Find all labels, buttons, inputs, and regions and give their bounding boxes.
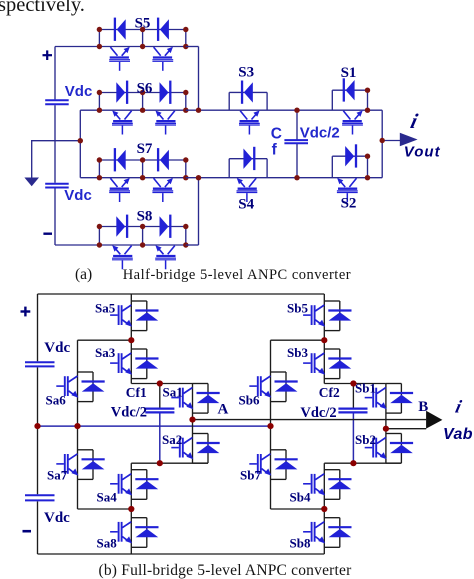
- wire Sb7 column: [271, 426, 325, 509]
- transistor S6-Q1: [112, 111, 133, 135]
- svg-text:Cf2: Cf2: [319, 385, 340, 400]
- wire top rail (a): [186, 109, 382, 111]
- junction dots of S5: [97, 27, 189, 49]
- wire bottom rail (a): [186, 177, 382, 179]
- wire Sb2 column: [385, 429, 387, 464]
- svg-text:Vdc/2: Vdc/2: [300, 405, 336, 421]
- wire Sa1 top connection: [160, 383, 193, 385]
- svg-text:Half-bridge 5-level ANPC conve: Half-bridge 5-level ANPC converter: [123, 267, 351, 283]
- junction Cf1/Sa2/Sa4 node: [157, 460, 163, 466]
- diode S7-D1: [115, 148, 126, 171]
- wire Sa4 column: [130, 463, 132, 509]
- svg-text:(a): (a): [75, 266, 92, 283]
- junction neutral at Sb6/Sb7: [267, 423, 273, 429]
- diode loop wire of Sa5: [131, 301, 147, 331]
- wire S8 right corner: [186, 178, 199, 245]
- svg-text:Sa5: Sa5: [95, 301, 116, 316]
- svg-text:Sb2: Sb2: [355, 432, 376, 447]
- diode Sa3-D: [135, 359, 158, 369]
- junction dots of S7: [97, 157, 189, 180]
- diode S7-D2: [158, 148, 169, 171]
- plus terminal of circuit (a): [43, 50, 53, 60]
- diode loop wire of Sa8: [131, 518, 147, 548]
- node B junction: [383, 426, 389, 432]
- svg-text:Vdc: Vdc: [44, 510, 70, 526]
- diode loop wire of Sb6: [271, 372, 287, 402]
- diode loop wire of Sa4: [131, 470, 147, 500]
- svg-text:Sb5: Sb5: [287, 301, 308, 316]
- wire Sb3 to node jog: [324, 383, 353, 385]
- junction Cf2/Sb2/Sb4 node: [350, 460, 356, 466]
- junction neutral at bus: [34, 423, 40, 429]
- diode Sb8-D: [328, 527, 351, 537]
- wire neutral tap: [31, 140, 80, 142]
- diode loop wire of Sb8: [324, 518, 340, 548]
- wire ladder of switch cell S6: [99, 93, 185, 111]
- diode S2-D: [345, 144, 356, 167]
- wire Sb1 column: [385, 384, 387, 429]
- diode loop wire of Sa1: [193, 384, 209, 414]
- transistor S8-Q1: [112, 245, 133, 269]
- wire Sa1 column: [192, 384, 194, 420]
- wire DC bus upper segment: [54, 47, 56, 100]
- capacitor Vdc (b upper): [25, 362, 55, 366]
- wire ladder of switch cell S8: [99, 227, 185, 246]
- svg-text:S1: S1: [341, 65, 357, 81]
- svg-text:Sa6: Sa6: [46, 392, 67, 407]
- svg-text:S4: S4: [238, 196, 254, 212]
- svg-text:Sa3: Sa3: [95, 345, 116, 360]
- diode S6-D2: [160, 81, 171, 104]
- transistor Sa8-Q: [110, 522, 132, 544]
- transistor Sb8-Q: [303, 522, 325, 544]
- svg-text:spectively.: spectively.: [0, 0, 85, 16]
- svg-text:S3: S3: [238, 65, 254, 81]
- svg-text:Vout: Vout: [404, 143, 441, 160]
- svg-text:S8: S8: [137, 208, 153, 224]
- junction output node: [380, 138, 385, 143]
- diode S5-D2: [158, 18, 169, 41]
- wire top rail (b): [38, 293, 325, 295]
- diode loop wire of Sa7: [78, 450, 94, 480]
- junction top rail at S5 vertical: [196, 108, 201, 113]
- ground symbol: [24, 178, 39, 187]
- minus terminal of circuit (b): [23, 530, 32, 533]
- wire Sa3 to node jog: [131, 383, 160, 385]
- transistor Sb7-Q: [249, 454, 271, 476]
- diode S8-D1: [116, 215, 127, 238]
- junction Sa4/Sa8 node: [128, 506, 134, 512]
- diode loop wire of Sb2: [386, 434, 402, 464]
- wire output stub: [382, 140, 400, 142]
- svg-text:Sa8: Sa8: [97, 536, 118, 551]
- diode Sa6-D: [82, 382, 105, 392]
- junction neutral tap node: [78, 138, 83, 143]
- diode loop wire of S4: [229, 159, 267, 178]
- wire DC bus (b) lower segment: [37, 501, 39, 554]
- transistor Sb6-Q: [249, 376, 271, 398]
- wire Sb4 column: [323, 463, 325, 509]
- diode Sa4-D: [135, 479, 158, 489]
- wire Cf2 upper stem: [352, 384, 354, 409]
- diode Sa5-D: [135, 311, 158, 321]
- transistor Sa5-Q: [110, 305, 132, 327]
- wire Cf1 lower stem: [159, 413, 161, 463]
- transistor S7-Q1: [109, 178, 130, 202]
- wire - rail to S8: [55, 244, 99, 246]
- transistor S4-Q: [237, 178, 258, 202]
- transistor S1-Q: [342, 111, 363, 135]
- junction neutral at Sa6/Sa7: [74, 423, 80, 429]
- svg-text:Sb1: Sb1: [355, 381, 376, 396]
- plus terminal of circuit (b): [21, 307, 31, 317]
- wire output vertical: [381, 110, 383, 178]
- wire S6-S7 left vertical: [79, 110, 81, 178]
- svg-text:Vdc: Vdc: [44, 340, 70, 356]
- diode S8-D2: [160, 215, 171, 238]
- wire Sb3 column: [323, 340, 325, 383]
- svg-text:Vdc/2: Vdc/2: [111, 405, 147, 421]
- wire node B line: [386, 428, 426, 430]
- transistor Sa4-Q: [110, 474, 132, 496]
- wire Sa8 column: [130, 509, 132, 554]
- label i (a): [408, 109, 420, 133]
- wire Sb1 top connection: [353, 383, 386, 385]
- svg-text:(b) Full-bridge 5-level ANPC c: (b) Full-bridge 5-level ANPC converter: [99, 562, 353, 579]
- svg-text:S7: S7: [137, 141, 153, 157]
- svg-text:A: A: [218, 402, 229, 418]
- svg-text:i: i: [408, 109, 420, 133]
- diode Sb4-D: [328, 479, 351, 489]
- capacitor Cf2: [338, 409, 367, 413]
- wire Cf lower stem: [296, 144, 298, 178]
- transistor Sb4-Q: [303, 474, 325, 496]
- transistor S5-Q1: [109, 47, 130, 71]
- diode loop wire of Sb7: [271, 450, 287, 480]
- diode loop wire of Sa2: [193, 434, 209, 464]
- transistor Sa7-Q: [56, 454, 78, 476]
- wire Sa3 column: [130, 340, 132, 383]
- transistor S7-Q2: [152, 178, 173, 202]
- wire S5 right corner: [186, 47, 199, 111]
- diode Sa2-D: [197, 443, 220, 453]
- wire Sa2 bottom connection: [160, 462, 208, 464]
- capacitor Cf1: [145, 409, 174, 413]
- transistor Sa6-Q: [56, 376, 78, 398]
- svg-text:Sb4: Sb4: [290, 490, 311, 505]
- wire Sb4 top jog: [324, 462, 353, 464]
- wire ladder of switch cell S5: [99, 30, 185, 47]
- transistor Sa2-Q: [171, 438, 193, 460]
- svg-text:Sb8: Sb8: [290, 536, 311, 551]
- capacitor Vdc (upper): [45, 100, 68, 104]
- junction Sb5/Sb3/Sb6 node: [321, 337, 327, 343]
- transistor S5-Q2: [152, 47, 173, 71]
- svg-text:C: C: [271, 125, 282, 142]
- diode loop wire of Sa6: [78, 372, 94, 402]
- wire DC bus (b) upper segment: [37, 294, 39, 361]
- svg-text:Sa4: Sa4: [97, 490, 118, 505]
- junction Sa3/Cf1/Sa1 node: [157, 380, 163, 386]
- wire DC bus lower segment: [54, 188, 56, 245]
- wire Sb8 column: [323, 509, 325, 554]
- diode Sb2-D: [390, 443, 413, 453]
- diode Sb5-D: [328, 311, 351, 321]
- diode loop wire of S2: [332, 156, 367, 178]
- capacitor Vdc (b lower): [25, 495, 55, 500]
- svg-text:S6: S6: [137, 81, 153, 97]
- svg-text:Sa7: Sa7: [47, 467, 68, 482]
- diode S4-D: [243, 147, 254, 170]
- junction bottom rail at S8 vertical: [196, 175, 201, 180]
- wire Sa5 column: [130, 294, 132, 340]
- junction dots of S1: [365, 88, 370, 113]
- capacitor Vdc (lower): [45, 184, 68, 188]
- junction Cf bottom: [294, 175, 299, 180]
- wire DC bus (b) middle segment: [37, 367, 39, 494]
- wire Cf1 upper stem: [159, 384, 161, 409]
- wire DC bus middle segment: [54, 105, 56, 183]
- wire stub to S6 left node: [80, 109, 99, 111]
- junction dots of S6: [97, 90, 189, 113]
- svg-text:Vdc: Vdc: [64, 187, 92, 204]
- svg-text:Vdc: Vdc: [65, 83, 93, 100]
- diode Sb3-D: [328, 359, 351, 369]
- svg-text:Sa2: Sa2: [162, 432, 182, 447]
- diode Sa1-D: [197, 393, 220, 403]
- svg-text:Sb7: Sb7: [240, 467, 261, 482]
- diode loop wire of Sb3: [324, 349, 340, 379]
- svg-text:Vab: Vab: [443, 426, 473, 443]
- transistor S3-Q: [239, 111, 260, 135]
- wire Cf upper stem: [296, 110, 298, 139]
- diode Sb7-D: [275, 459, 298, 469]
- wire Sa2 column: [192, 420, 194, 464]
- minus terminal of circuit (a): [43, 232, 52, 234]
- junction dots of S2: [365, 154, 370, 181]
- diode loop wire of S3: [229, 92, 267, 110]
- diode Sa7-D: [82, 459, 105, 469]
- svg-text:B: B: [418, 399, 428, 415]
- transistor S6-Q2: [155, 111, 176, 135]
- diode Sa8-D: [135, 527, 158, 537]
- transistor Sa1-Q: [171, 388, 193, 410]
- wire stub to S7 left node: [80, 177, 99, 179]
- wire ladder of switch cell S7: [99, 160, 185, 178]
- svg-text:f: f: [272, 142, 278, 159]
- svg-text:Cf1: Cf1: [126, 385, 147, 400]
- svg-text:Vdc/2: Vdc/2: [300, 125, 340, 142]
- output arrow (b): [426, 411, 442, 429]
- diode S6-D1: [116, 81, 127, 104]
- wire Cf2 lower stem: [352, 413, 354, 463]
- junction Sb3/Cf2/Sb1 node: [350, 380, 356, 386]
- svg-text:i: i: [454, 397, 464, 417]
- wire ground stem: [31, 141, 33, 178]
- label i (b): [454, 397, 464, 417]
- wire node A line: [193, 419, 427, 421]
- node A junction: [189, 417, 195, 423]
- diode loop wire of Sb4: [324, 470, 340, 500]
- svg-text:Sb3: Sb3: [287, 345, 308, 360]
- output arrow (a): [400, 133, 418, 146]
- diode loop wire of S1: [332, 90, 367, 110]
- transistor Sb5-Q: [303, 305, 325, 327]
- diode loop wire of Sa3: [131, 349, 147, 379]
- junction dots of S8: [97, 224, 189, 248]
- transistor Sb1-Q: [365, 388, 387, 410]
- diode loop wire of Sb5: [324, 301, 340, 331]
- diode Sb1-D: [390, 393, 413, 403]
- svg-text:S5: S5: [135, 15, 151, 31]
- svg-text:Sa1: Sa1: [163, 384, 183, 399]
- wire bottom rail (b): [38, 553, 325, 555]
- wire + rail to S5: [55, 46, 99, 48]
- junction Cf top: [294, 108, 299, 113]
- svg-text:S2: S2: [341, 195, 357, 211]
- capacitor Cf: [284, 140, 308, 143]
- transistor S8-Q2: [155, 245, 176, 269]
- wire Sa6 top connection: [78, 340, 132, 426]
- junction Sa5/Sa3/Sa6 node: [128, 337, 134, 343]
- diode S5-D1: [115, 18, 126, 41]
- wire Sb5 column: [323, 294, 325, 340]
- diode loop wire of Sb1: [386, 384, 402, 414]
- transistor Sb3-Q: [303, 353, 325, 375]
- diode S3-D: [242, 81, 253, 104]
- wire Sb6 top connection: [271, 340, 325, 426]
- wire Sb2 bottom connection: [353, 462, 401, 464]
- svg-text:Sb6: Sb6: [239, 392, 260, 407]
- wire Sa4 top jog: [131, 462, 160, 464]
- junction Sb4/Sb8 node: [321, 506, 327, 512]
- wire neutral rail: [38, 425, 271, 427]
- transistor S2-Q: [337, 178, 358, 202]
- transistor Sb2-Q: [365, 438, 387, 460]
- diode S1-D: [344, 78, 355, 101]
- diode Sb6-D: [275, 382, 298, 392]
- transistor Sa3-Q: [110, 353, 132, 375]
- wire Sa7 column: [78, 426, 132, 509]
